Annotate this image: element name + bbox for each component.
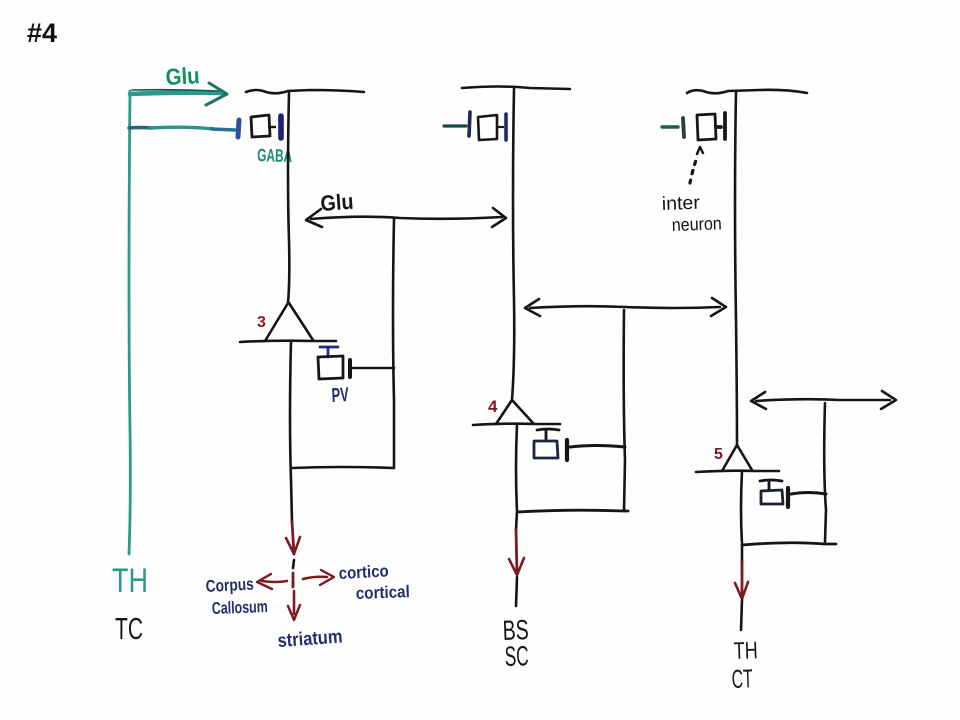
wire column3 top horizontal <box>687 90 807 93</box>
synapse S3 right bar <box>716 113 725 139</box>
wire dotted arrow interneuron <box>690 157 697 183</box>
wire red arrow striatum (down) <box>293 591 296 614</box>
interneuron PV3 square (navy) <box>761 490 783 504</box>
neuron N5 base line <box>696 471 779 472</box>
svg-text:TC: TC <box>115 611 143 646</box>
svg-text:CT: CT <box>731 663 753 694</box>
synapse S1 spine bar (navy) <box>278 116 284 138</box>
wire TH glu arrow (teal) <box>130 93 222 94</box>
wire column2 apical dendrite <box>512 89 514 400</box>
wire feedback branch col2 vertical <box>624 310 625 511</box>
svg-text:TH: TH <box>733 637 758 665</box>
svg-text:neuron: neuron <box>671 213 722 235</box>
svg-text:Glu: Glu <box>320 189 355 216</box>
svg-text:PV: PV <box>331 384 350 407</box>
interneuron PV2 T-bar <box>537 429 559 441</box>
svg-text:4: 4 <box>488 397 498 416</box>
neuron N3 base line <box>240 341 336 342</box>
svg-text:Corpus: Corpus <box>205 575 254 596</box>
wire double arrow col3-right <box>756 399 890 401</box>
svg-text:Glu: Glu <box>165 62 200 90</box>
wire PV3 to feedback <box>791 493 826 495</box>
interneuron PV1 spine bar <box>348 360 352 377</box>
wire feedback bottom horizontal col1 <box>292 467 394 468</box>
synapse S1 connector <box>268 126 276 128</box>
svg-text:cortico: cortico <box>338 561 389 583</box>
wire axon col1 <box>290 341 292 522</box>
svg-text:#4: #4 <box>27 18 57 48</box>
wire red arrow cortico (right) <box>303 577 327 579</box>
wire column2 top horizontal <box>462 87 570 90</box>
neuron N5 triangle <box>722 445 752 471</box>
svg-text:TH: TH <box>112 562 148 600</box>
synapse S2 left bar <box>469 112 470 136</box>
interneuron PV3 T-bar <box>760 480 782 490</box>
wire feedback branch col3 vertical <box>824 403 826 542</box>
synapse terminal bar (blue) <box>238 120 239 137</box>
wire glu double arrow col1-col2 <box>311 217 502 219</box>
wire PV2 to feedback <box>570 446 625 448</box>
svg-text:inter: inter <box>661 193 700 215</box>
wire red output arrow col1 <box>292 522 294 554</box>
synapse S2 input tick <box>444 124 466 127</box>
synapse S3 input tick <box>662 125 678 128</box>
synapse S3 left bar <box>683 118 684 137</box>
svg-text:Callosum: Callosum <box>211 597 268 618</box>
interneuron PV2 spine bar <box>565 440 569 460</box>
synapse S2 right bar (navy) <box>504 114 508 140</box>
synapse S2 square <box>478 115 497 140</box>
wire column1 top horizontal <box>246 90 364 93</box>
wire axon col2 <box>516 424 517 530</box>
wire double arrow col2-col3 <box>530 306 720 308</box>
interneuron PV1 square <box>318 356 343 379</box>
interneuron PV2 square (navy) <box>534 441 558 458</box>
wire red output arrow col3 <box>741 562 744 598</box>
synapse S3 square <box>697 114 716 140</box>
interneuron PV3 spine bar <box>786 488 790 507</box>
wire feedback bottom horizontal col3 <box>742 543 836 545</box>
neuron N3 triangle <box>265 303 313 341</box>
svg-text:cortical: cortical <box>355 582 410 603</box>
neuron N4 base line <box>473 424 560 425</box>
interneuron PV1 T-bar (navy) <box>320 347 338 357</box>
node junction col1 <box>293 560 294 568</box>
wire column3 apical dendrite <box>735 92 737 445</box>
svg-text:5: 5 <box>714 446 723 463</box>
wire axon col3 <box>741 471 742 562</box>
svg-text:SC: SC <box>504 640 529 672</box>
wire red arrow corpus (left) <box>262 581 287 582</box>
wire TH gaba branch (teal) <box>129 126 152 130</box>
neuron N4 triangle <box>496 400 533 424</box>
wire feedback branch col1 vertical <box>393 219 394 468</box>
synapse S1 square <box>251 115 270 137</box>
synapse S2 connector <box>497 126 504 128</box>
svg-text:3: 3 <box>257 314 266 331</box>
wire red output arrow col2 <box>516 530 517 574</box>
wire PV1 to feedback <box>353 367 394 370</box>
wire TH vertical (teal) <box>129 91 130 554</box>
svg-text:striatum: striatum <box>277 627 343 652</box>
wire feedback bottom horizontal col2 <box>518 510 628 512</box>
wire column1 apical dendrite <box>288 93 289 303</box>
